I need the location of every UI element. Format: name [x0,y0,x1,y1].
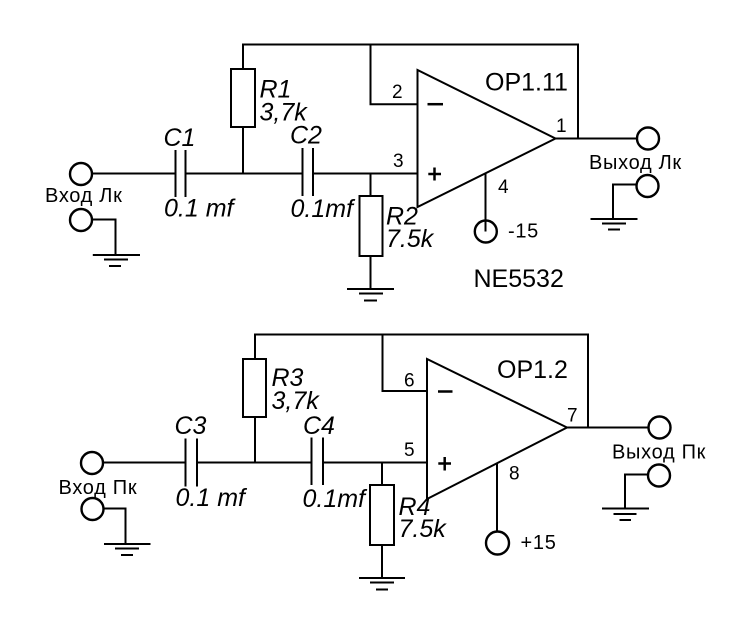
svg-text:Выход Лк: Выход Лк [589,152,682,174]
svg-text:7.5k: 7.5k [386,225,435,253]
svg-text:0.1 mf: 0.1 mf [176,484,249,512]
svg-text:0.1mf: 0.1mf [303,485,369,513]
svg-text:Вход Лк: Вход Лк [45,185,123,207]
svg-text:7: 7 [567,406,578,427]
svg-text:1: 1 [556,116,567,137]
svg-text:Вход Пк: Вход Пк [59,477,138,499]
svg-text:C4: C4 [303,412,335,440]
svg-text:OP1.11: OP1.11 [485,69,568,97]
svg-text:+15: +15 [521,532,557,554]
svg-text:7.5k: 7.5k [399,515,448,543]
svg-text:-15: -15 [508,221,539,243]
svg-text:8: 8 [509,464,520,485]
svg-text:3,7k: 3,7k [272,387,321,415]
svg-text:0.1mf: 0.1mf [291,195,357,223]
svg-text:5: 5 [404,440,415,461]
svg-text:3: 3 [393,151,404,172]
svg-text:C2: C2 [290,122,322,150]
svg-text:NE5532: NE5532 [474,265,564,293]
svg-text:2: 2 [392,82,403,103]
svg-text:4: 4 [498,177,509,198]
svg-text:OP1.2: OP1.2 [497,356,568,384]
svg-text:Выход Пк: Выход Пк [612,442,706,464]
svg-text:C1: C1 [164,124,196,152]
svg-text:6: 6 [404,371,415,392]
svg-text:C3: C3 [175,412,207,440]
svg-text:0.1 mf: 0.1 mf [164,195,237,223]
